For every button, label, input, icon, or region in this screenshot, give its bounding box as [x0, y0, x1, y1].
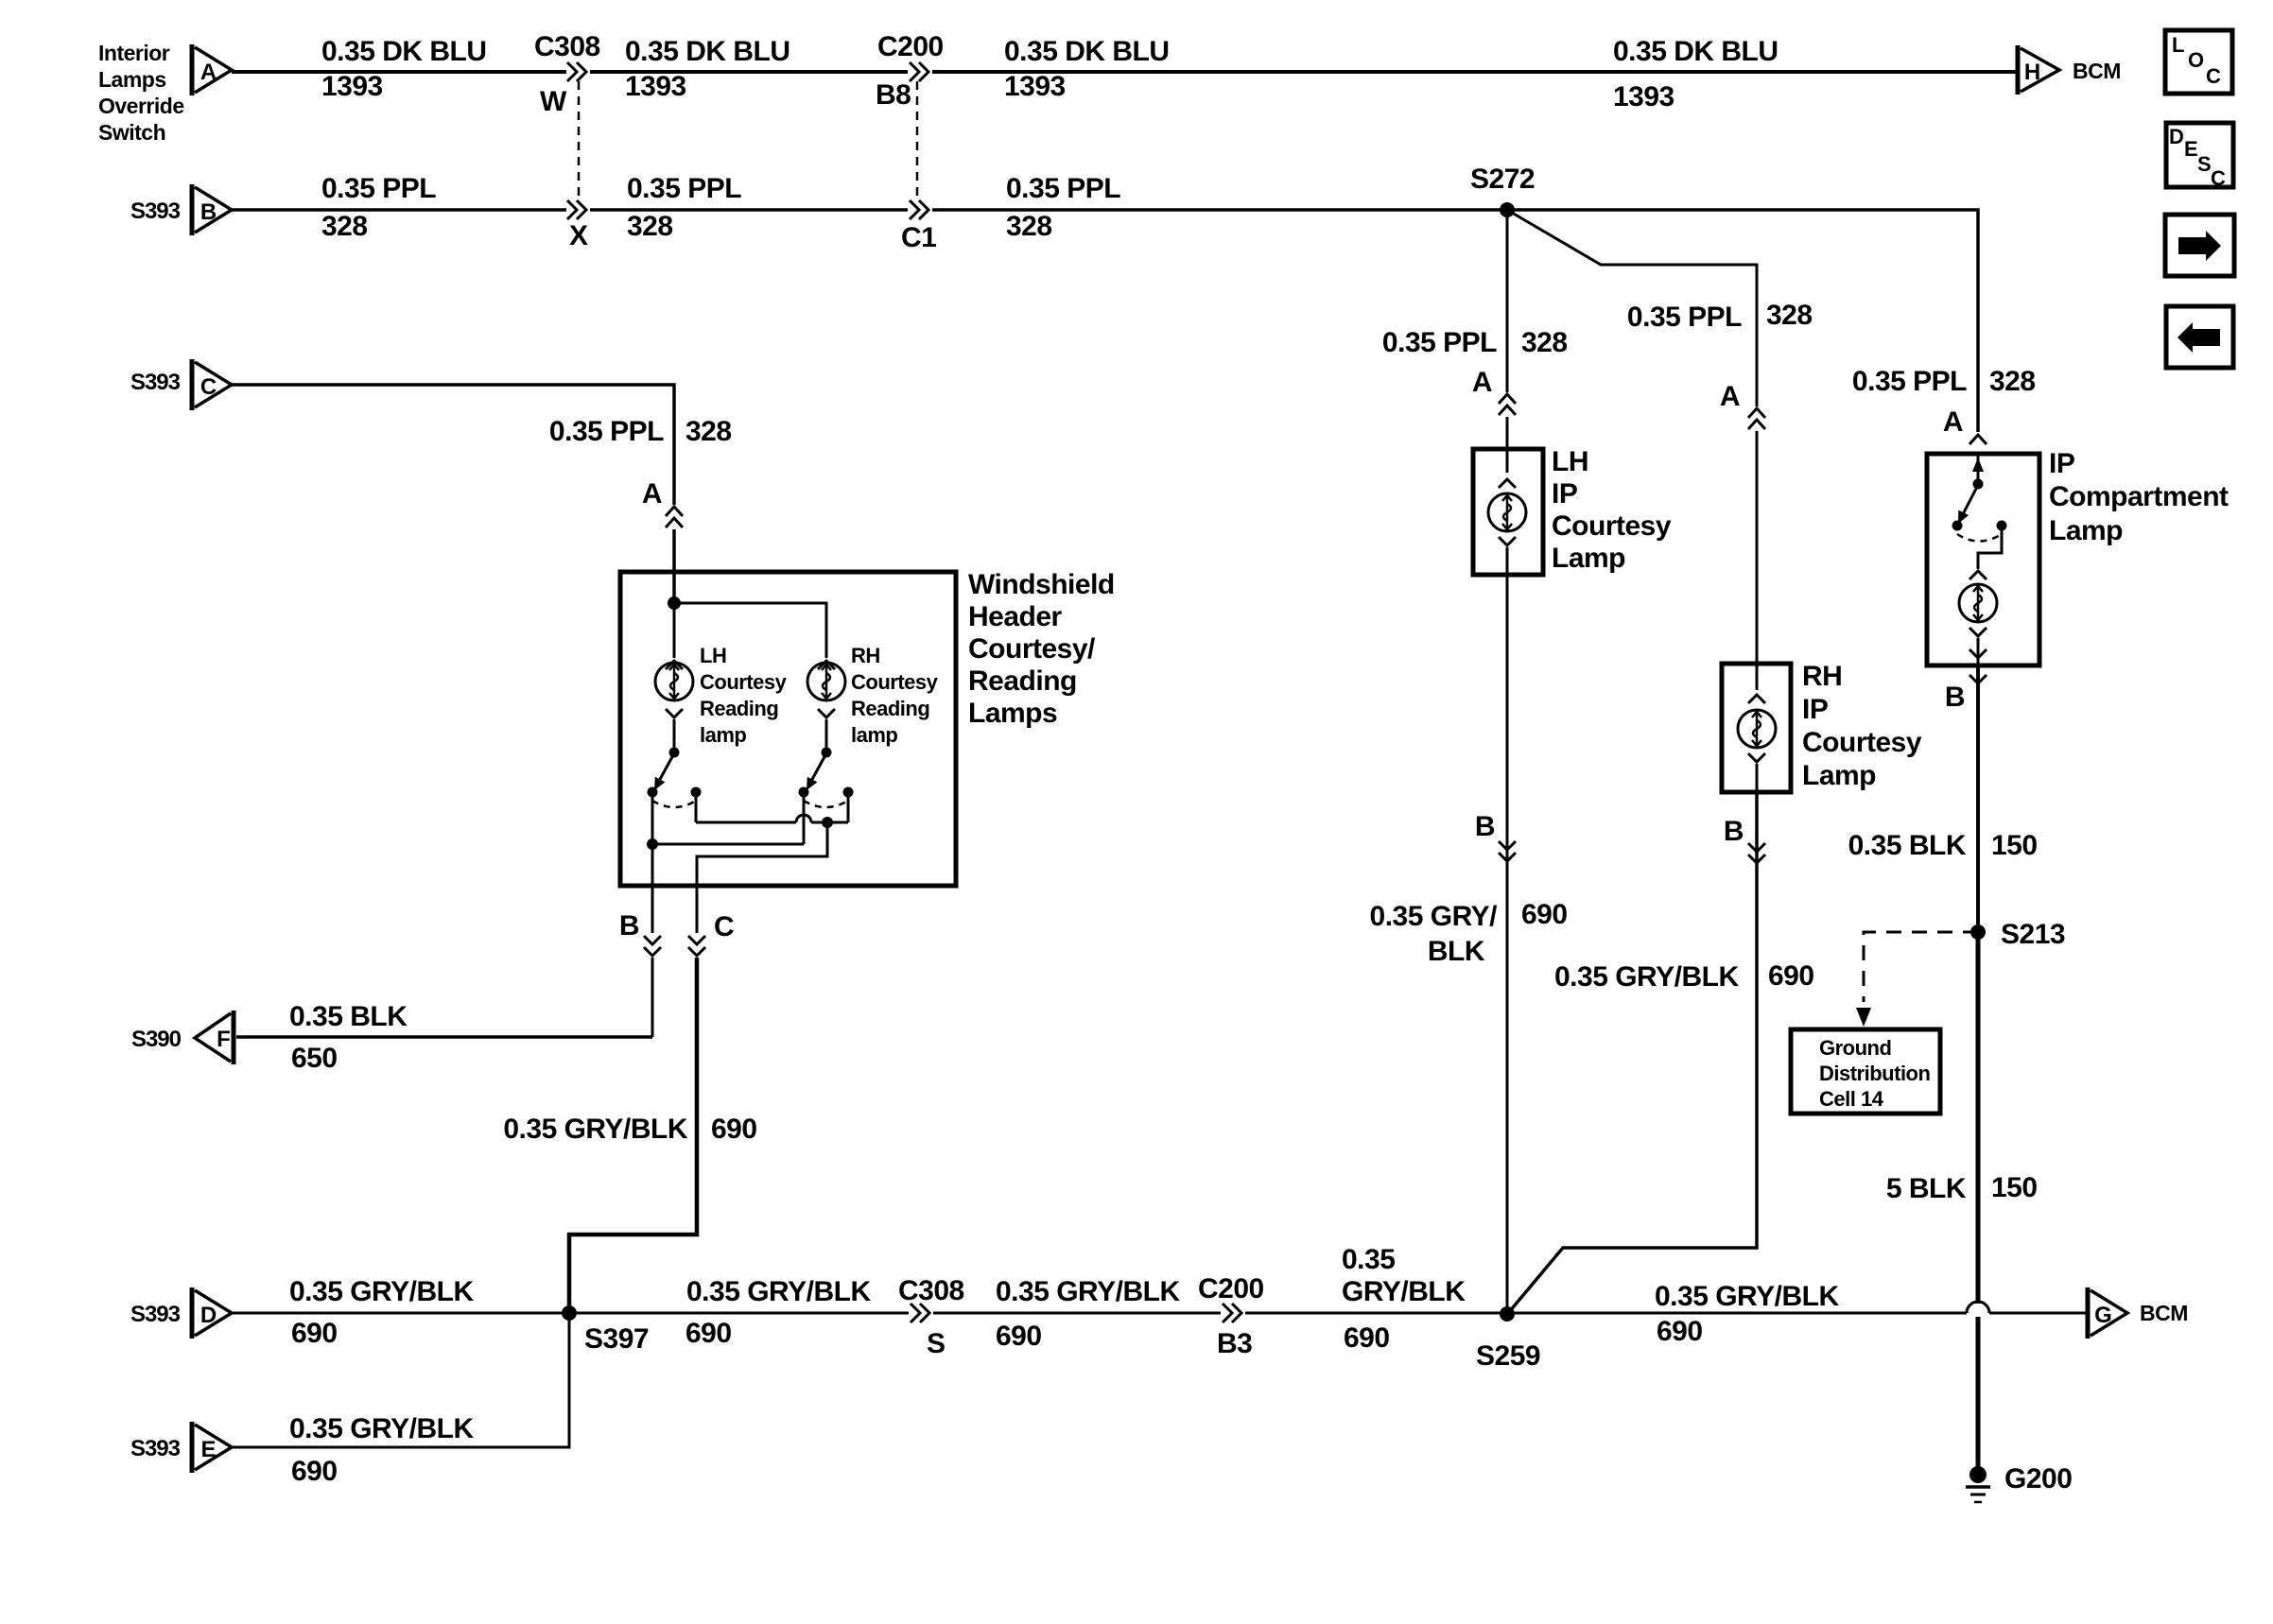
svg-text:C308: C308 [534, 31, 600, 62]
svg-text:650: 650 [291, 1043, 338, 1074]
svg-text:C: C [200, 374, 217, 400]
svg-text:BCM: BCM [2073, 59, 2121, 83]
wire joining right contacts with hop over RH left-contact wire [696, 815, 848, 822]
svg-text:D: D [200, 1303, 217, 1328]
svg-text:RH: RH [1802, 661, 1842, 692]
svg-text:E: E [2184, 137, 2197, 161]
svg-text:W: W [540, 86, 567, 117]
component label RH IP Courtesy Lamp [1802, 661, 1922, 791]
svg-text:A: A [200, 60, 217, 85]
svg-text:0.35 PPL: 0.35 PPL [627, 173, 741, 204]
connector C200 inline break C1 (row 2) [901, 200, 936, 253]
wire LH IP lamp terminal B down to S259 [1506, 575, 1509, 1309]
svg-text:0.35 GRY/BLK: 0.35 GRY/BLK [289, 1276, 474, 1307]
wire label [321, 36, 487, 102]
wire down to RH IP lamp box [1756, 431, 1759, 690]
box title label [968, 569, 1115, 729]
wire 5 BLK 150 down to G200 [1976, 932, 1981, 1304]
svg-text:RH: RH [851, 644, 880, 667]
svg-text:0.35 DK BLU: 0.35 DK BLU [1613, 36, 1778, 67]
wire 0.35 PPL 328 segment C200 to S272 and on to IP compartment lamp [932, 210, 1978, 432]
connector B chevrons below LH IP lamp [1475, 811, 1516, 861]
svg-text:5 BLK: 5 BLK [1886, 1173, 1967, 1204]
connector A chevrons into LH IP courtesy lamp [1472, 367, 1516, 415]
svg-text:Lamps: Lamps [98, 67, 166, 92]
svg-text:B3: B3 [1217, 1328, 1252, 1359]
wire label [1627, 300, 1813, 333]
svg-text:690: 690 [291, 1318, 338, 1349]
wire joining left contacts [652, 843, 804, 846]
svg-text:0.35 PPL: 0.35 PPL [1627, 302, 1742, 333]
svg-text:0.35 GRY/: 0.35 GRY/ [1370, 901, 1499, 932]
wire 0.35 BLK 650 [236, 1035, 652, 1039]
svg-text:Courtesy: Courtesy [851, 670, 939, 694]
svg-text:1393: 1393 [625, 71, 686, 102]
wire lamp to switch [673, 719, 676, 752]
connector terminal F (S390) [195, 1011, 234, 1064]
wire 0.35 GRY/BLK 690 segment S397 to C308 [569, 1312, 909, 1315]
RH lamp switch [799, 748, 854, 808]
svg-text:C308: C308 [898, 1275, 964, 1306]
connector terminal G to BCM [2088, 1287, 2188, 1339]
svg-text:690: 690 [685, 1318, 732, 1349]
wire 0.35 PPL 328 segment B to C308 [232, 208, 566, 212]
svg-text:D: D [2169, 125, 2183, 148]
junction node on joining wire [822, 817, 833, 828]
wire label [289, 1001, 408, 1074]
wire into box with up arrow [1972, 454, 1984, 484]
connector A chevrons into windshield header [642, 478, 683, 527]
connector C308 inline break S (bottom row) [898, 1275, 964, 1359]
svg-text:0.35 GRY/BLK: 0.35 GRY/BLK [1554, 961, 1739, 993]
wire label [1006, 173, 1120, 242]
wire label [503, 1114, 756, 1145]
icon box DESC [2166, 123, 2233, 190]
wire RH left contact down [803, 792, 806, 844]
wire RH right contact down [847, 792, 850, 822]
svg-text:Lamp: Lamp [1552, 543, 1625, 574]
connector terminal C (S393) [192, 359, 232, 410]
wire label [625, 36, 790, 102]
svg-text:690: 690 [1521, 899, 1568, 930]
connector B chevrons below box [619, 910, 661, 956]
wire label [685, 1276, 871, 1349]
svg-text:S393: S393 [130, 1436, 181, 1461]
svg-text:0.35 GRY/BLK: 0.35 GRY/BLK [503, 1114, 687, 1145]
svg-text:B: B [1724, 816, 1744, 847]
svg-text:690: 690 [1657, 1316, 1703, 1347]
connector C308 dashed body [578, 81, 581, 196]
svg-text:0.35 PPL: 0.35 PPL [549, 416, 664, 447]
ground distribution cell 14 box [1791, 1029, 1940, 1114]
svg-text:150: 150 [1991, 830, 2038, 861]
svg-text:A: A [1943, 406, 1963, 438]
ground G200 [1966, 1463, 2072, 1502]
dashed reference to ground distribution [1856, 932, 1978, 1027]
svg-text:Override: Override [98, 94, 184, 118]
wire label [321, 173, 436, 242]
wire lamp to box bottom [1756, 764, 1759, 792]
svg-text:B: B [1945, 682, 1965, 713]
label Interior Lamps Override Switch [98, 41, 184, 145]
svg-text:S272: S272 [1470, 164, 1535, 195]
wire label [289, 1276, 474, 1349]
svg-text:690: 690 [1344, 1322, 1390, 1354]
RH IP courtesy lamp bulb [1738, 695, 1776, 762]
wire label IP compartment lamp feed [1852, 366, 2036, 397]
splice node S213 [1970, 919, 2065, 950]
svg-text:B8: B8 [876, 79, 911, 111]
svg-text:Courtesy/: Courtesy/ [968, 633, 1096, 665]
connector C308 inline break X (row 2) [567, 200, 588, 251]
svg-text:F: F [217, 1027, 230, 1052]
wire label [1554, 960, 1814, 993]
wire 0.35 PPL 328 S272 down to LH IP courtesy lamp [1506, 210, 1509, 392]
svg-text:S213: S213 [2001, 919, 2065, 950]
IP compartment lamp box [1927, 454, 2039, 665]
wire label [549, 416, 732, 447]
wire 0.35 BLK 150 down to S213 [1976, 665, 1980, 932]
svg-text:lamp: lamp [700, 723, 746, 747]
svg-text:Reading: Reading [700, 697, 778, 720]
wire 0.35 GRY/BLK 690 segment S259 to BCM with hop [1507, 1302, 2088, 1313]
icon box arrow right [2165, 215, 2234, 276]
svg-text:328: 328 [1006, 211, 1052, 242]
component label LH IP Courtesy Lamp [1552, 446, 1672, 574]
svg-text:X: X [569, 220, 588, 251]
lamp label LH Courtesy Reading lamp [700, 644, 788, 747]
connector terminal A (Interior Lamps Override Switch) [192, 44, 232, 95]
svg-text:C1: C1 [901, 222, 936, 253]
wire 0.35 DK BLU 1393 segment A to C308 [232, 70, 566, 74]
wire label [627, 173, 741, 242]
svg-text:BCM: BCM [2140, 1301, 2188, 1325]
svg-text:Courtesy: Courtesy [1802, 727, 1922, 758]
svg-text:L: L [2172, 33, 2184, 57]
wire branch to RH lamp [674, 603, 826, 658]
svg-text:A: A [1720, 381, 1740, 412]
connector A chevrons into RH IP courtesy lamp [1720, 381, 1765, 429]
svg-text:Ground: Ground [1819, 1036, 1891, 1060]
svg-text:S397: S397 [584, 1323, 649, 1355]
svg-text:0.35 DK BLU: 0.35 DK BLU [321, 36, 487, 67]
LH lamp switch [648, 748, 702, 808]
icon box LOC [2165, 30, 2232, 94]
svg-text:0.35 DK BLU: 0.35 DK BLU [1004, 36, 1170, 67]
svg-text:1393: 1393 [321, 71, 383, 102]
lamp label RH Courtesy Reading lamp [851, 644, 939, 747]
svg-text:0.35 BLK: 0.35 BLK [1848, 830, 1967, 861]
svg-text:C200: C200 [877, 31, 944, 62]
wire lamp to box bottom [1506, 547, 1509, 575]
splice node S272 [1470, 164, 1535, 217]
svg-text:328: 328 [685, 416, 732, 447]
svg-text:Switch: Switch [98, 120, 165, 145]
svg-text:0.35 PPL: 0.35 PPL [321, 173, 436, 204]
svg-text:1393: 1393 [1004, 71, 1066, 102]
svg-text:B: B [1475, 811, 1495, 842]
IP compartment lamp switch [1952, 479, 2007, 542]
wire label [1004, 36, 1170, 102]
wire 0.35 PPL 328 S272 diagonal to RH IP courtesy lamp [1507, 210, 1757, 406]
wire label [1655, 1281, 1839, 1347]
LH IP courtesy lamp bulb [1488, 479, 1526, 545]
wire 5 BLK below crossover to ground [1976, 1317, 1981, 1469]
wire 0.35 DK BLU 1393 segment C200 to BCM [932, 70, 2016, 74]
svg-text:lamp: lamp [851, 723, 897, 747]
wire into LH IP lamp box [1506, 417, 1509, 473]
svg-text:C: C [714, 911, 734, 942]
component label IP Compartment Lamp [2049, 448, 2229, 546]
wire lamp to box bottom with chevron [1969, 638, 1987, 665]
svg-text:S: S [927, 1328, 946, 1359]
connector terminal E (S393) [192, 1422, 232, 1473]
svg-text:Cell 14: Cell 14 [1819, 1087, 1884, 1111]
wire LH left contact down and out of box (terminal B) [651, 792, 654, 933]
junction node inside box [668, 596, 681, 610]
wire from switch contact to lamp [1978, 526, 2002, 569]
icon box arrow left [2166, 306, 2233, 368]
svg-text:C: C [2211, 166, 2226, 190]
svg-text:150: 150 [1991, 1172, 2038, 1203]
RH courtesy reading lamp [807, 661, 845, 717]
LH courtesy reading lamp [655, 661, 693, 717]
connector terminal D (S393) [192, 1287, 232, 1339]
svg-text:G200: G200 [2004, 1463, 2072, 1494]
wire B terminal down to S390 wire [651, 958, 654, 1037]
wire RH IP lamp terminal B down and over to S259 [1509, 792, 1757, 1312]
wire label [1848, 830, 2038, 861]
wire 0.35 GRY/BLK 690 segment D to S397 [232, 1312, 569, 1315]
svg-text:328: 328 [1521, 327, 1568, 358]
wire label [1342, 1244, 1466, 1354]
svg-text:A: A [642, 478, 662, 510]
svg-text:Lamp: Lamp [2049, 515, 2123, 546]
wire into windshield box [672, 529, 676, 603]
connector C200 dashed body [916, 81, 919, 196]
svg-text:G: G [2094, 1303, 2111, 1328]
LH IP courtesy lamp box [1473, 449, 1543, 575]
svg-text:IP: IP [1802, 694, 1828, 725]
svg-text:Reading: Reading [851, 697, 929, 720]
svg-text:690: 690 [291, 1456, 338, 1487]
svg-text:LH: LH [1552, 446, 1588, 477]
wire 0.35 DK BLU 1393 segment C308 to C200 [590, 70, 908, 74]
svg-text:Courtesy: Courtesy [1552, 510, 1672, 542]
svg-text:S393: S393 [130, 370, 181, 395]
svg-text:Courtesy: Courtesy [700, 670, 788, 694]
svg-text:C: C [2206, 64, 2221, 88]
connector terminal B (S393) [192, 184, 232, 235]
svg-text:0.35 PPL: 0.35 PPL [1006, 173, 1120, 204]
svg-text:GRY/BLK: GRY/BLK [1342, 1276, 1466, 1307]
wire lamp to switch [825, 719, 828, 752]
svg-text:0.35 GRY/BLK: 0.35 GRY/BLK [686, 1276, 871, 1307]
svg-text:S259: S259 [1476, 1340, 1540, 1372]
svg-text:0.35: 0.35 [1342, 1244, 1395, 1275]
svg-text:690: 690 [711, 1114, 757, 1145]
wire from junction to terminal C [697, 822, 827, 933]
junction node [647, 838, 658, 850]
svg-text:S390: S390 [131, 1027, 182, 1052]
svg-text:LH: LH [700, 644, 726, 667]
svg-text:BLK: BLK [1428, 936, 1485, 967]
wire label [1886, 1172, 2038, 1204]
svg-text:1393: 1393 [1613, 81, 1674, 112]
wire C terminal down, jog left to S397 [569, 958, 697, 1309]
connector B chevrons below RH IP lamp [1724, 816, 1765, 863]
svg-text:Reading: Reading [968, 665, 1077, 697]
svg-text:Header: Header [968, 601, 1063, 632]
wire 0.35 PPL 328 from C down to windshield header lamps [232, 385, 674, 505]
connector C chevrons below box [688, 911, 734, 956]
svg-text:0.35 BLK: 0.35 BLK [289, 1001, 408, 1032]
svg-text:Lamp: Lamp [1802, 760, 1876, 791]
svg-text:Compartment: Compartment [2049, 481, 2229, 512]
wire down to LH lamp [673, 603, 676, 658]
connector C200 inline break B8 (row 1) [876, 31, 944, 111]
svg-text:Lamps: Lamps [968, 698, 1057, 729]
svg-text:B: B [619, 910, 639, 942]
svg-text:S: S [2197, 152, 2211, 176]
wire label [289, 1413, 474, 1487]
svg-text:328: 328 [321, 211, 368, 242]
svg-text:Distribution: Distribution [1819, 1062, 1930, 1085]
svg-text:B: B [200, 199, 217, 225]
connector C200 inline break B3 (bottom row) [1198, 1273, 1264, 1359]
wire label [996, 1276, 1180, 1352]
svg-text:328: 328 [627, 211, 673, 242]
IP compartment lamp bulb [1959, 571, 1997, 636]
wire 0.35 GRY/BLK 690 segment C200 to S259 [1245, 1312, 1507, 1315]
wire label [1613, 36, 1778, 112]
svg-text:S393: S393 [130, 199, 181, 224]
windshield header courtesy/reading lamps box [620, 572, 956, 886]
splice node S259 [1476, 1306, 1540, 1372]
connector A chevrons into IP compartment lamp [1943, 406, 1987, 444]
connector terminal H to BCM [2018, 45, 2121, 95]
svg-text:IP: IP [2049, 448, 2074, 479]
wire label [1370, 899, 1568, 967]
svg-text:0.35 PPL: 0.35 PPL [1852, 366, 1967, 397]
svg-text:S393: S393 [130, 1302, 181, 1327]
svg-text:328: 328 [1766, 300, 1813, 331]
wire 0.35 GRY/BLK 690 segment C308 to C200 [933, 1312, 1221, 1315]
wire 0.35 GRY/BLK 690 segment E to S397 [232, 1313, 569, 1447]
svg-text:A: A [1472, 367, 1492, 398]
svg-text:Windshield: Windshield [968, 569, 1115, 600]
connector B chevron below IP compartment lamp [1945, 675, 1987, 713]
svg-text:Interior: Interior [98, 41, 170, 65]
svg-text:328: 328 [1989, 366, 2036, 397]
svg-text:0.35 DK BLU: 0.35 DK BLU [625, 36, 790, 67]
svg-text:E: E [200, 1437, 216, 1462]
wire LH right contact down [695, 792, 698, 822]
wire 0.35 PPL 328 segment C308 to C200 [590, 208, 908, 212]
RH IP courtesy lamp box [1722, 664, 1791, 792]
svg-text:IP: IP [1552, 478, 1577, 510]
svg-text:H: H [2024, 60, 2039, 85]
svg-text:690: 690 [1768, 960, 1814, 992]
svg-text:0.35 GRY/BLK: 0.35 GRY/BLK [289, 1413, 474, 1444]
svg-text:690: 690 [996, 1321, 1042, 1352]
svg-text:0.35 GRY/BLK: 0.35 GRY/BLK [996, 1276, 1180, 1307]
wire label [1382, 327, 1568, 358]
svg-text:C200: C200 [1198, 1273, 1264, 1304]
svg-text:0.35 GRY/BLK: 0.35 GRY/BLK [1655, 1281, 1839, 1312]
splice node S397 [562, 1305, 649, 1355]
svg-text:0.35 PPL: 0.35 PPL [1382, 327, 1497, 358]
connector C308 inline break W (row 1) [534, 31, 600, 117]
svg-text:O: O [2188, 48, 2204, 72]
